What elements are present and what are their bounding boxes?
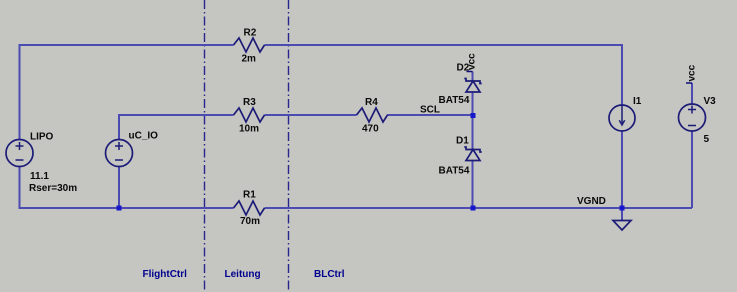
svg-text:I1: I1: [633, 96, 642, 107]
svg-text:Leitung: Leitung: [225, 269, 261, 280]
wire: middle rail between R3 and R4: [265, 114, 357, 116]
current source I1: [609, 96, 642, 131]
resistor R3: [234, 97, 265, 135]
voltage source LIPO: [6, 132, 77, 195]
wire: uC_IO bottom to bottom rail: [118, 167, 120, 209]
wire: top rail left segment with corner down to LIPO top: [20, 45, 234, 140]
svg-text:vcc: vcc: [467, 53, 478, 70]
svg-text:BAT54: BAT54: [439, 166, 470, 177]
wire: uC_IO top with corner to middle rail, to R3: [119, 115, 234, 140]
resistor R2: [234, 28, 265, 65]
net label vcc at D2 cathode: [467, 53, 478, 72]
resistor R1: [234, 190, 265, 228]
wire: D2 anode down to SCL junction: [472, 92, 474, 115]
svg-text:vcc: vcc: [687, 64, 698, 81]
svg-text:D1: D1: [456, 136, 469, 147]
ground symbol at VGND: [613, 208, 631, 230]
region boundary dash-dot line (FlightCtrl/Leitung): [204, 0, 206, 292]
svg-text:BLCtrl: BLCtrl: [314, 269, 345, 280]
svg-text:2m: 2m: [242, 54, 257, 65]
svg-text:11.1: 11.1: [30, 171, 49, 182]
wire: bottom rail middle segment R1 to D1 junction: [265, 207, 473, 209]
svg-text:10m: 10m: [239, 124, 259, 135]
resistor R4: [357, 97, 388, 135]
junction: VGND node: [620, 206, 625, 211]
svg-text:R3: R3: [243, 97, 256, 108]
wire: SCL junction down to D1 cathode: [472, 115, 474, 150]
svg-text:LIPO: LIPO: [30, 132, 54, 143]
svg-text:SCL: SCL: [420, 105, 440, 116]
wire: bottom rail segment VGND junction to V3 bottom: [622, 207, 692, 209]
wire: LIPO bottom to bottom rail left segment: [20, 167, 234, 209]
svg-text:V3: V3: [704, 96, 717, 107]
net label vcc at V3 top: [686, 64, 698, 83]
wire: top rail right segment from R2 to I1 with corner down: [265, 45, 623, 106]
wire: I1 bottom to VGND junction: [621, 131, 623, 209]
svg-text:Rser=30m: Rser=30m: [29, 183, 77, 194]
wire: bottom rail segment D1 junction to VGND junction: [473, 207, 623, 209]
svg-text:R4: R4: [365, 97, 378, 108]
svg-text:5: 5: [704, 134, 710, 145]
svg-text:VGND: VGND: [577, 196, 606, 207]
svg-text:470: 470: [362, 124, 379, 135]
diode D1 (BAT54 schottky): [439, 136, 482, 177]
svg-text:FlightCtrl: FlightCtrl: [143, 269, 188, 280]
voltage source uC_IO: [106, 131, 159, 167]
svg-text:R2: R2: [244, 28, 257, 39]
voltage source V3: [679, 96, 717, 145]
wire: D2 cathode stub up to vcc net: [472, 72, 474, 82]
wire: V3 bottom to bottom rail: [691, 132, 693, 209]
wire: V3 top stub from vcc net: [691, 83, 693, 104]
svg-text:uC_IO: uC_IO: [129, 131, 159, 142]
region boundary dash-dot line (Leitung/BLCtrl): [288, 0, 290, 292]
junction: uC_IO bottom on rail: [117, 206, 122, 211]
svg-text:BAT54: BAT54: [439, 95, 470, 106]
svg-text:70m: 70m: [240, 216, 260, 227]
diode D2 (BAT54 schottky): [439, 63, 482, 107]
junction: SCL node: [471, 113, 476, 118]
wire: middle rail R4 to SCL junction: [387, 114, 473, 116]
wire: D1 anode down to bottom rail junction: [472, 161, 474, 209]
svg-text:R1: R1: [243, 190, 256, 201]
junction: D1 anode on bottom rail: [471, 206, 476, 211]
